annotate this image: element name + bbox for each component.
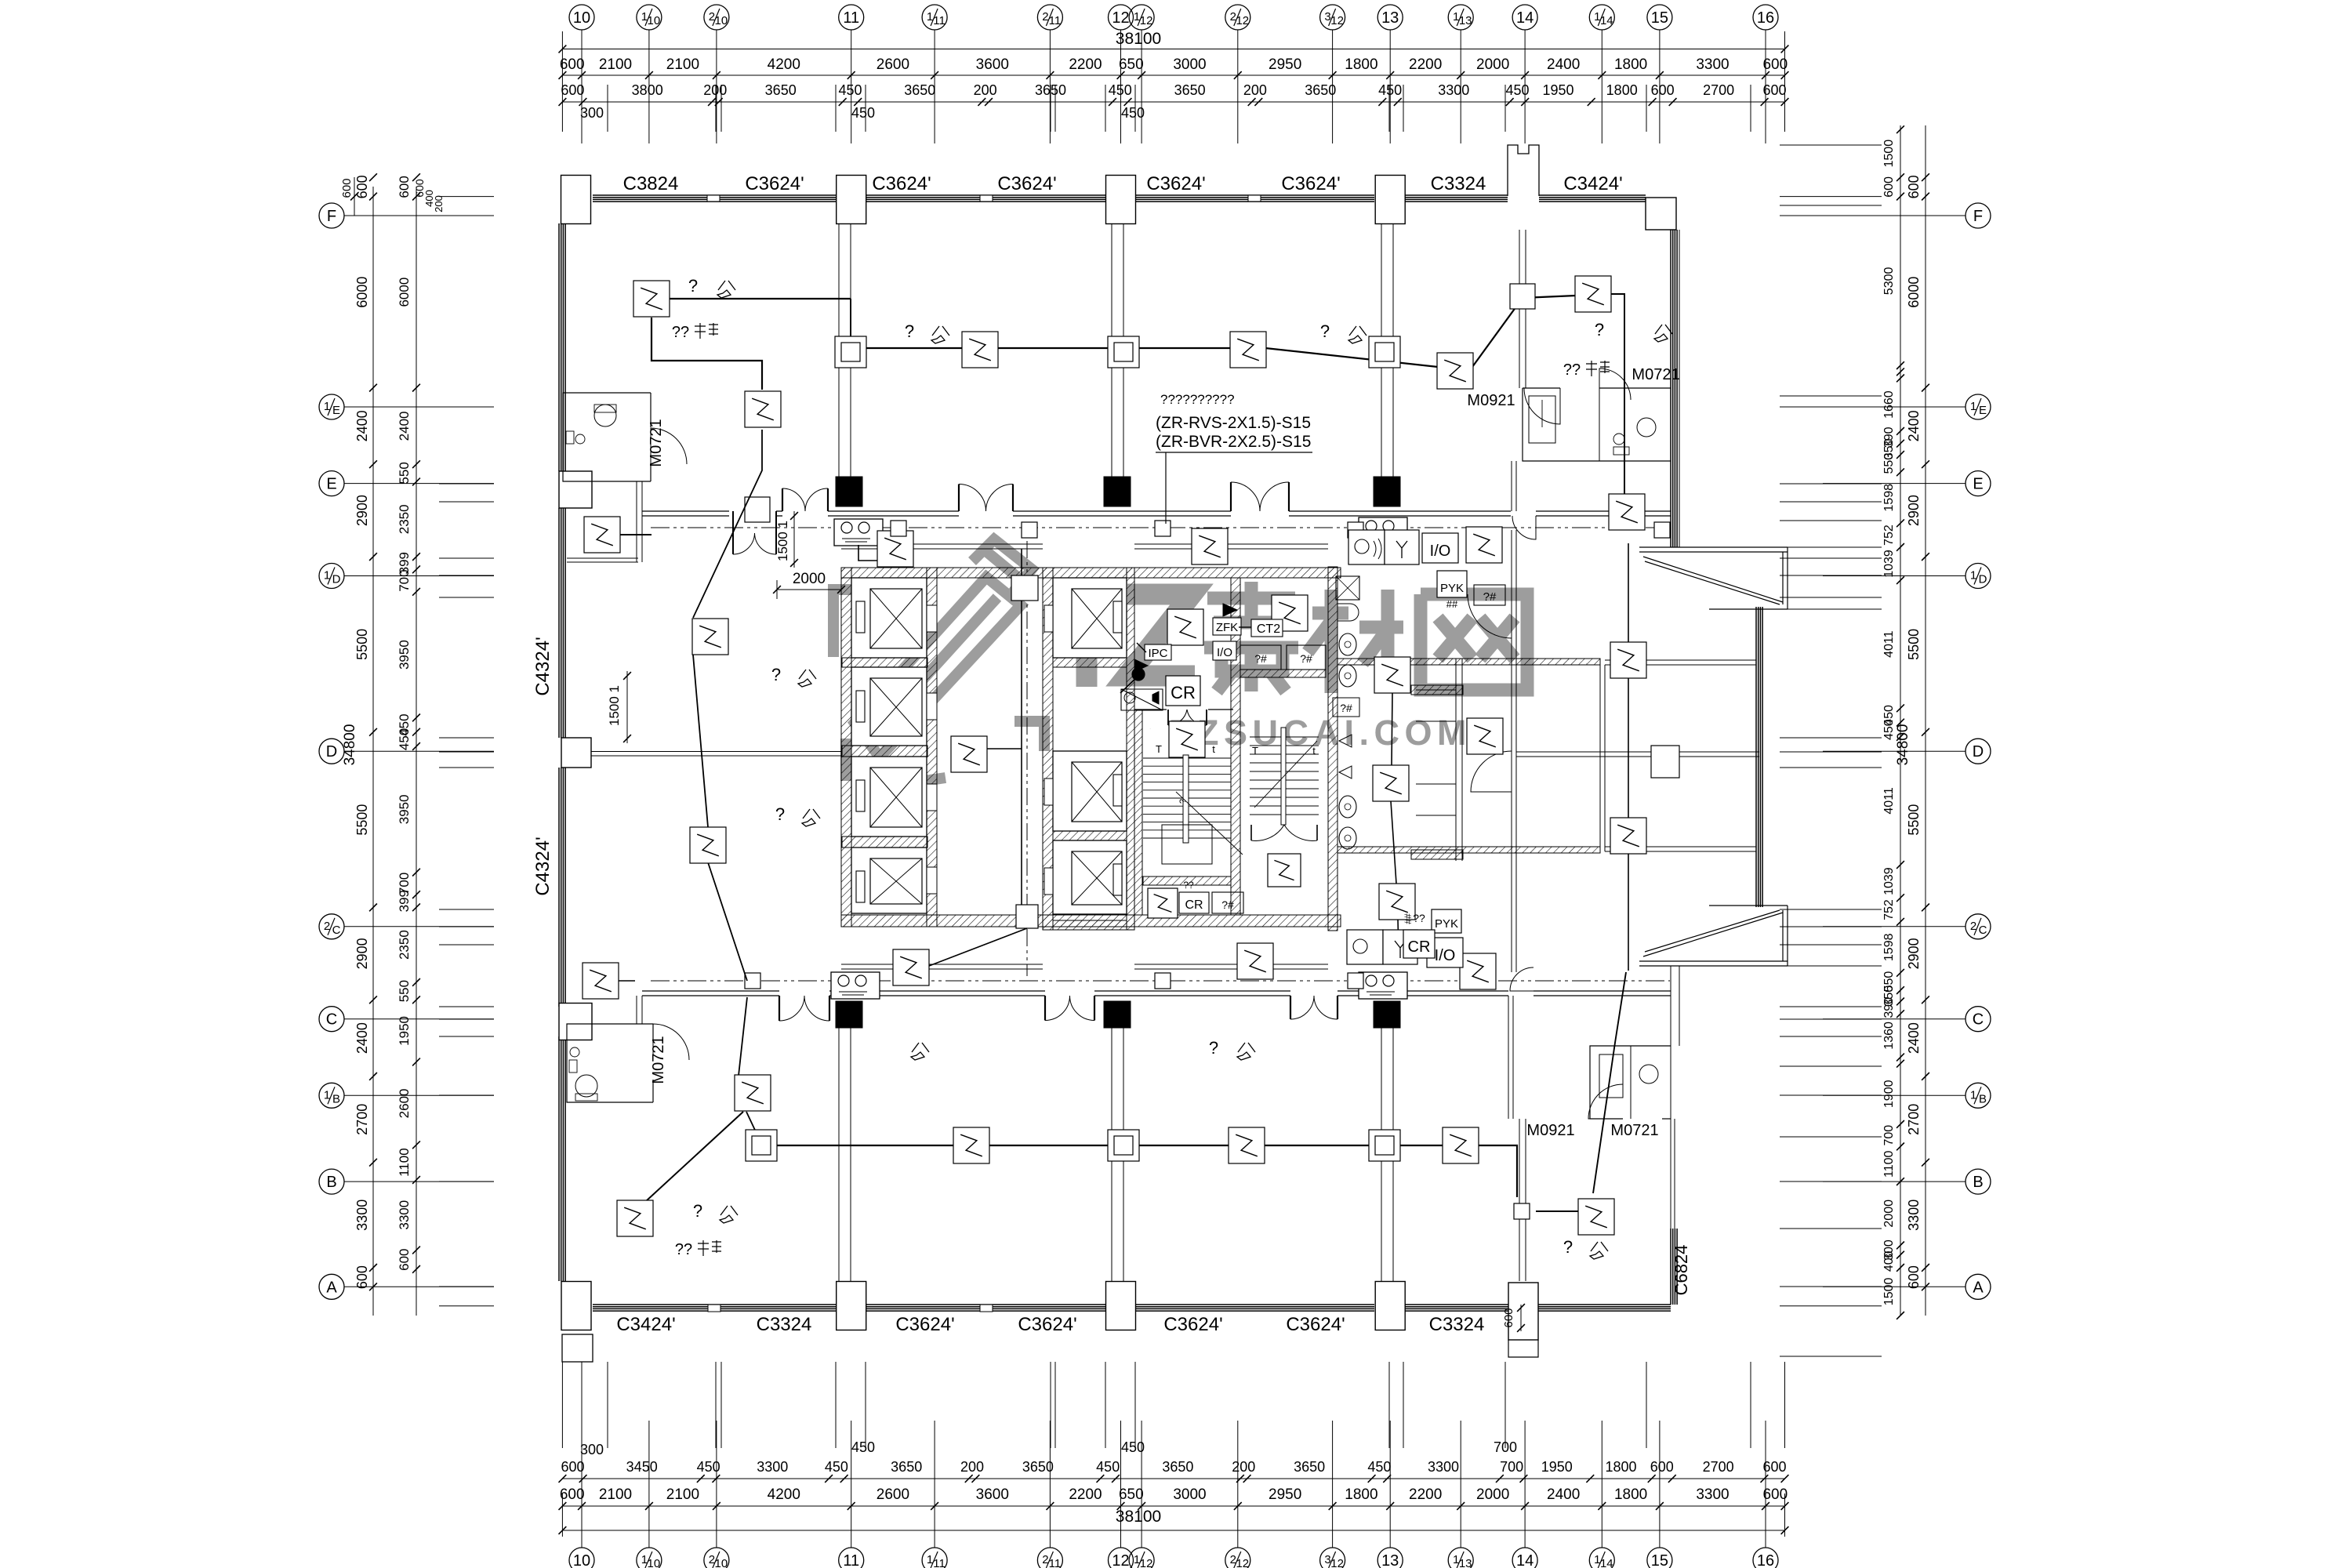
smoke detector S right wall upper — [1610, 642, 1646, 678]
svg-text:3300: 3300 — [757, 1459, 788, 1475]
left wall column row D — [561, 738, 591, 768]
svg-text:600: 600 — [1762, 82, 1786, 98]
left inner dimension line — [416, 187, 417, 1316]
right window band C6824 — [1670, 1229, 1671, 1305]
watermark char wang (网) — [1421, 594, 1527, 690]
stairwell 2 vent shafts — [1240, 645, 1281, 670]
row D wall left section — [591, 751, 841, 753]
grid bubble 1/11 top — [922, 5, 947, 30]
toilet shaft label — [1333, 698, 1359, 717]
bathroom bottom-left walls — [567, 1024, 653, 1102]
bottom dimension line - wall openings — [562, 1478, 1784, 1479]
svg-text:A: A — [1973, 1279, 1984, 1296]
grid line 2/11 bottom stem — [1049, 1530, 1051, 1548]
svg-text:?#: ?# — [1221, 898, 1234, 911]
svg-text:450: 450 — [1121, 105, 1145, 121]
grid bubble 2/11 bottom — [1037, 1548, 1062, 1568]
svg-text:??: ?? — [672, 324, 689, 341]
svg-text:1900: 1900 — [1882, 1080, 1896, 1108]
lower right wing canopy — [1639, 906, 1788, 966]
grid bubble 11 top — [839, 5, 864, 30]
svg-text:2950: 2950 — [1269, 1486, 1301, 1503]
black column 12 upper corridor — [1104, 477, 1131, 506]
svg-text:200: 200 — [1243, 82, 1267, 98]
svg-text:399: 399 — [397, 890, 412, 912]
grid line 1/14 bottom stem — [1601, 1530, 1602, 1548]
svg-text:?: ? — [693, 1201, 702, 1221]
grid bubble 1/12 top — [1129, 5, 1154, 30]
svg-text:E: E — [1979, 404, 1987, 417]
smoke detector S corridor top mid — [1192, 528, 1228, 564]
grid bubble 1/14 bottom — [1589, 1548, 1614, 1568]
svg-text:C: C — [1979, 924, 1987, 937]
grid bubble 1/12 bottom — [1129, 1548, 1154, 1568]
grid bubble 1/10 bottom — [637, 1548, 662, 1568]
svg-text:T: T — [1252, 745, 1258, 757]
svg-text:1950: 1950 — [1541, 1459, 1573, 1475]
interior grid pilaster line col 11 bottom — [838, 1028, 840, 1281]
smoke detector S T1 — [633, 281, 670, 317]
interior grid pilaster line col 11 top — [838, 223, 840, 477]
svg-text:C3324: C3324 — [1431, 173, 1486, 194]
svg-text:3450: 3450 — [626, 1459, 658, 1475]
svg-text:B: B — [1973, 1174, 1983, 1191]
grid line D right stem — [1823, 750, 1965, 752]
interior grid pilaster line col 13 top — [1381, 223, 1382, 477]
svg-text:PYK: PYK — [1435, 917, 1458, 931]
grid line C left stem — [344, 1018, 373, 1020]
lobby riser wire vertical — [1021, 549, 1022, 917]
svg-text:C3324: C3324 — [1429, 1314, 1485, 1335]
grid line A left stem — [344, 1286, 373, 1287]
svg-text:1100: 1100 — [397, 1148, 412, 1177]
grid bubble 2/12 bottom — [1225, 1548, 1250, 1568]
svg-text:4200: 4200 — [768, 56, 800, 73]
svg-text:2600: 2600 — [877, 1486, 909, 1503]
svg-text:C: C — [326, 1011, 337, 1029]
interior grid pilaster line col 12 top — [1111, 223, 1112, 477]
column 14 bottom with tab — [1508, 1283, 1538, 1340]
front room label — [1151, 651, 1157, 657]
svg-text:15: 15 — [1651, 9, 1668, 27]
right inner dimension line — [1900, 125, 1901, 1316]
grid bubble 2/10 top — [704, 5, 729, 30]
smoke detector S lobby — [951, 736, 987, 772]
svg-text:200: 200 — [960, 1459, 984, 1475]
svg-text:600: 600 — [340, 178, 354, 198]
svg-text:3600: 3600 — [976, 56, 1009, 73]
grid bubble 1/14 top — [1589, 5, 1614, 30]
svg-text:2100: 2100 — [666, 1486, 699, 1503]
svg-text:3300: 3300 — [1438, 82, 1469, 98]
mid bank east wall hatched — [1127, 568, 1134, 930]
right rooms vertical partition — [1599, 665, 1601, 851]
label gong bottom far-left — [911, 1043, 929, 1060]
svg-text:CT2: CT2 — [1257, 622, 1280, 636]
top right speaker strobe pair — [1348, 530, 1385, 564]
black column 13 upper corridor — [1374, 477, 1400, 506]
svg-text:2700: 2700 — [354, 1104, 370, 1135]
svg-text:600: 600 — [1882, 176, 1896, 198]
black column 12 lower corridor — [1104, 1001, 1131, 1028]
grid bubble E right — [1965, 471, 1991, 496]
stair1 lower room CR — [1179, 892, 1209, 913]
wire diagonal left riser — [693, 430, 762, 981]
wire top main horizontal — [851, 296, 1576, 367]
upper corridor south wall — [841, 543, 1043, 545]
wire lobby detector to riser — [987, 748, 1022, 750]
svg-text:C3624': C3624' — [1286, 1314, 1345, 1335]
svg-text:2900: 2900 — [354, 938, 370, 969]
svg-text:6000: 6000 — [354, 277, 370, 308]
grid line 1/D left stem — [344, 575, 373, 577]
svg-text:3650: 3650 — [891, 1459, 922, 1475]
right extension lines — [1780, 144, 1882, 146]
grid bubble 1/E right — [1965, 394, 1991, 419]
bottom overall dimension line 38100 — [562, 1530, 1784, 1531]
lower corridor centerline — [651, 980, 1670, 982]
svg-text:M0721: M0721 — [1632, 366, 1679, 383]
svg-text:450: 450 — [697, 1459, 720, 1475]
svg-text:2200: 2200 — [1069, 1486, 1102, 1503]
svg-text:450: 450 — [851, 105, 875, 121]
svg-text:?: ? — [775, 804, 785, 824]
fire phone jack black triangles — [1134, 659, 1148, 672]
grid bubble 3/12 bottom — [1320, 1548, 1345, 1568]
grid line 12 top stem — [1120, 30, 1122, 49]
svg-text:3650: 3650 — [1294, 1459, 1325, 1475]
CR box front room — [1166, 676, 1200, 706]
grid line 13 bottom stem — [1389, 1530, 1391, 1548]
grid line B left stem — [344, 1181, 373, 1182]
elevator shaft L1 — [851, 578, 927, 658]
svg-text:C: C — [332, 924, 341, 937]
smoke detector S right wall lower — [1610, 818, 1646, 854]
grid bubble 2/11 top — [1037, 5, 1062, 30]
stairwell 2 treads — [1250, 736, 1319, 738]
svg-text:CR: CR — [1171, 683, 1196, 702]
svg-text:2000: 2000 — [1476, 56, 1509, 73]
front room door arcs — [1167, 710, 1169, 725]
smoke detector S below front room door — [1169, 721, 1205, 757]
stair2 lower detector — [1268, 854, 1301, 887]
grid line 12 bottom stem — [1120, 1530, 1122, 1548]
left lobby wall upper — [567, 557, 638, 559]
svg-text:14: 14 — [1516, 9, 1534, 27]
watermark char T — [1053, 594, 1195, 687]
grid bubble 1/11 bottom — [922, 1548, 947, 1568]
svg-text:I/O: I/O — [1430, 543, 1451, 560]
svg-text:700: 700 — [397, 569, 412, 591]
svg-text:200: 200 — [703, 82, 727, 98]
svg-text:16: 16 — [1757, 1552, 1774, 1568]
toilet stall wall vertical — [1455, 659, 1457, 861]
grid line 2/12 bottom stem — [1237, 1530, 1239, 1548]
svg-text:C4324': C4324' — [532, 637, 554, 695]
watermark char su (素) — [1204, 582, 1527, 693]
smoke detector S corridor top east — [1609, 494, 1645, 530]
svg-text:3650: 3650 — [1174, 82, 1206, 98]
grid line 3/12 top stem — [1332, 30, 1334, 49]
wire speaker to corridor box — [858, 545, 878, 561]
stair2 diagonal arrow — [1254, 741, 1317, 808]
grid line 1/12 top stem — [1141, 30, 1142, 49]
grid line A right stem — [1823, 1286, 1965, 1287]
svg-text:15: 15 — [1651, 1552, 1668, 1568]
svg-text:C3424': C3424' — [616, 1314, 675, 1335]
right exterior wall upper section — [1670, 230, 1671, 547]
svg-text:600: 600 — [560, 1486, 585, 1503]
svg-text:C3624': C3624' — [1281, 173, 1340, 194]
grid bubble F right — [1965, 203, 1991, 228]
svg-text:4011: 4011 — [1882, 787, 1896, 815]
svg-text:1800: 1800 — [1345, 1486, 1377, 1503]
front room wall (qianshi) — [1134, 709, 1167, 710]
svg-text:1039: 1039 — [1882, 867, 1896, 895]
door arc corridor to right room lower — [1510, 967, 1534, 991]
svg-text:11: 11 — [843, 1552, 859, 1568]
svg-text:13: 13 — [1381, 9, 1399, 27]
svg-text:2400: 2400 — [1547, 56, 1580, 73]
svg-text:C3624': C3624' — [872, 173, 931, 194]
grid line 2/10 top stem — [716, 30, 717, 49]
top right IO box — [1422, 533, 1458, 563]
grid line D left stem — [344, 750, 373, 752]
smoke detector S corridor bottom west — [893, 949, 929, 985]
lower corridor speaker boxes — [831, 972, 880, 999]
svg-text:200: 200 — [433, 195, 445, 212]
grid bubble C right — [1965, 1007, 1991, 1032]
svg-text:ZFK: ZFK — [1216, 621, 1238, 634]
grid bubble E left — [319, 471, 344, 496]
svg-text:C3624': C3624' — [1018, 1314, 1076, 1335]
svg-text:12: 12 — [1112, 1552, 1129, 1568]
svg-text:?: ? — [771, 665, 781, 684]
svg-text:C3824: C3824 — [623, 173, 679, 194]
grid bubble 2/C left — [319, 914, 344, 939]
row D wall right section — [1516, 751, 1759, 753]
junction square col 14 top wire — [1510, 284, 1535, 309]
svg-text:3650: 3650 — [1162, 1459, 1193, 1475]
handset symbol — [1132, 668, 1145, 681]
black column 11 lower corridor — [836, 1001, 862, 1028]
left bank shaft separators hatched — [842, 658, 927, 667]
top wall window mullion gaps — [707, 195, 720, 201]
grid bubble 12 bottom — [1109, 1548, 1134, 1568]
svg-text:2400: 2400 — [397, 411, 412, 441]
svg-text:450: 450 — [1505, 82, 1529, 98]
dimension 2000 entry — [777, 589, 841, 590]
svg-text:3300: 3300 — [354, 1200, 370, 1231]
svg-text:2100: 2100 — [666, 56, 699, 73]
svg-text:3300: 3300 — [1696, 1486, 1729, 1503]
bathroom top-right walls — [1523, 388, 1671, 461]
grid line 2/12 top stem — [1237, 30, 1239, 49]
grid line 14 bottom stem — [1524, 1530, 1526, 1548]
upper right wing canopy — [1639, 547, 1788, 609]
right rooms partition lower hatched — [1338, 847, 1600, 853]
column 13 bottom — [1375, 1282, 1405, 1330]
bathroom bottom-left fixtures — [575, 1075, 597, 1097]
toilet fixtures column — [1336, 576, 1359, 600]
svg-text:450: 450 — [1109, 82, 1132, 98]
grid bubble C left — [319, 1007, 344, 1032]
svg-text:650: 650 — [1119, 56, 1144, 73]
left bank door slots — [927, 605, 937, 632]
svg-text:5500: 5500 — [354, 804, 370, 836]
left exterior wall window band — [558, 223, 560, 471]
svg-text:1598: 1598 — [1882, 484, 1896, 512]
right outer dimension line — [1925, 125, 1926, 1316]
IO box front room — [1213, 641, 1236, 660]
junction squares small corridor — [891, 521, 906, 536]
svg-text:2000: 2000 — [1882, 1200, 1896, 1228]
svg-text:2950: 2950 — [1269, 56, 1301, 73]
svg-text:2400: 2400 — [354, 1022, 370, 1054]
bathroom top-left sink — [566, 431, 574, 444]
svg-text:200: 200 — [974, 82, 997, 98]
svg-text:?: ? — [1178, 799, 1188, 804]
note leader line — [1165, 452, 1167, 524]
bottom right speaker strobe pair — [1347, 930, 1383, 964]
mid bank separators hatched — [1053, 658, 1127, 667]
svg-text:450: 450 — [851, 1439, 875, 1455]
door arc corridor to right room upper — [1512, 516, 1536, 539]
smoke detector S bottom-left 2 — [735, 1075, 771, 1111]
bottom dimension line - column spacings — [562, 1505, 1784, 1507]
svg-text:2400: 2400 — [1906, 1022, 1922, 1054]
black column 11 upper corridor — [836, 477, 862, 506]
svg-text:3300: 3300 — [1428, 1459, 1459, 1475]
bathroom bottom-right door — [1588, 1084, 1623, 1119]
svg-text:F: F — [327, 208, 336, 225]
bottom extension lines — [561, 1362, 563, 1448]
svg-text:2700: 2700 — [1703, 1459, 1734, 1475]
CR box south right — [1403, 930, 1435, 958]
bathroom top-right doors — [1524, 388, 1560, 424]
svg-text:200: 200 — [1232, 1459, 1255, 1475]
toilet stall door lines — [1416, 689, 1456, 691]
grid line 16 bottom stem — [1765, 1530, 1766, 1548]
svg-text:400: 400 — [1882, 1250, 1896, 1272]
stairwell 2 rail — [1281, 728, 1286, 825]
svg-text:T: T — [1156, 743, 1162, 755]
svg-text:##: ## — [1403, 913, 1414, 924]
wire bottom main horizontal — [754, 1145, 1517, 1197]
bottom wall window mullion gaps — [708, 1305, 720, 1312]
lobby junction box lower — [1016, 905, 1038, 928]
svg-text:450: 450 — [1121, 1439, 1145, 1455]
svg-text:5300: 5300 — [1882, 267, 1896, 296]
svg-text:TZSUCAI.COM: TZSUCAI.COM — [1171, 713, 1472, 753]
svg-text:1500: 1500 — [1882, 140, 1896, 168]
svg-text:390: 390 — [1882, 997, 1896, 1018]
grid bubble 10 top — [569, 5, 594, 30]
grid line 11 top stem — [851, 30, 852, 49]
left extension lines — [439, 196, 494, 198]
smoke detector S left wall upper — [584, 517, 620, 553]
stair1 lower room shaft label — [1212, 892, 1243, 913]
svg-text:450: 450 — [1096, 1459, 1120, 1475]
svg-text:CR: CR — [1408, 938, 1431, 956]
right rooms partition upper hatched — [1338, 659, 1600, 665]
svg-text:M0721: M0721 — [648, 419, 665, 466]
upper corridor north wall — [642, 510, 729, 512]
bottom right PYK box — [1432, 909, 1461, 933]
smoke detector S left riser 1 — [745, 391, 781, 427]
grid line F left stem — [344, 215, 373, 216]
right exterior wall middle section — [1755, 607, 1757, 907]
grid bubble 1/D right — [1965, 564, 1991, 589]
svg-text:1598: 1598 — [1882, 933, 1896, 961]
stair1 lower wall hatched — [1143, 877, 1231, 885]
svg-text:3600: 3600 — [976, 1486, 1009, 1503]
svg-text:600: 600 — [560, 56, 585, 73]
svg-text:M0721: M0721 — [650, 1036, 667, 1083]
wire bottom right link — [1536, 1210, 1578, 1212]
right exterior wall lower section — [1670, 966, 1671, 1229]
grid line 16 top stem — [1765, 30, 1766, 49]
grid bubble 1/13 bottom — [1448, 1548, 1473, 1568]
toilet stall partition lower hatched — [1411, 850, 1463, 859]
svg-text:1950: 1950 — [397, 1016, 412, 1046]
svg-text:PYK: PYK — [1440, 582, 1464, 595]
grid bubble 13 bottom — [1377, 1548, 1403, 1568]
grid bubble 14 top — [1512, 5, 1537, 30]
mid bank door slots — [1044, 605, 1053, 632]
svg-text:14: 14 — [1516, 1552, 1534, 1568]
svg-text:450: 450 — [1378, 82, 1402, 98]
svg-text:2000: 2000 — [1476, 1486, 1509, 1503]
svg-text:M0921: M0921 — [1467, 392, 1515, 409]
grid line 2/C left stem — [344, 926, 373, 927]
wire right column vertical — [1628, 543, 1629, 971]
svg-text:1100: 1100 — [1882, 1150, 1896, 1178]
svg-text:3650: 3650 — [765, 82, 797, 98]
upper corridor centerline — [651, 527, 1670, 528]
ZFK box — [1213, 618, 1241, 635]
lower corridor double doors — [779, 996, 780, 1021]
svg-text:C4324': C4324' — [532, 837, 554, 895]
svg-text:450: 450 — [838, 82, 862, 98]
grid line 1/11 bottom stem — [934, 1530, 935, 1548]
svg-text:2600: 2600 — [877, 56, 909, 73]
svg-text:2100: 2100 — [599, 56, 632, 73]
grid bubble 16 top — [1753, 5, 1778, 30]
svg-text:3650: 3650 — [1305, 82, 1336, 98]
svg-text:550: 550 — [397, 462, 412, 484]
svg-text:1500: 1500 — [1882, 1278, 1896, 1306]
wire bottom right diagonal riser — [1593, 972, 1626, 1193]
svg-text:D: D — [332, 573, 341, 586]
svg-text:38100: 38100 — [1116, 1508, 1161, 1526]
svg-text:12: 12 — [1112, 9, 1129, 27]
elevator lobby centerline vertical — [1026, 541, 1028, 976]
svg-text:(ZR-BVR-2X2.5)-S15: (ZR-BVR-2X2.5)-S15 — [1156, 433, 1311, 451]
grid line 1/12 bottom stem — [1141, 1530, 1142, 1548]
svg-text:C3624': C3624' — [745, 173, 804, 194]
svg-text:##: ## — [1446, 598, 1458, 610]
grid bubble A right — [1965, 1274, 1991, 1299]
top right PYK box — [1437, 571, 1467, 597]
corner post below — [562, 1334, 593, 1362]
svg-text:600: 600 — [1502, 1308, 1515, 1327]
grid line 1/E right stem — [1823, 406, 1965, 408]
top dimension line - wall openings — [562, 101, 1784, 103]
smoke detector S core south — [1237, 943, 1273, 979]
corridor junction boxes — [1022, 522, 1037, 538]
svg-text:B: B — [1979, 1092, 1987, 1105]
